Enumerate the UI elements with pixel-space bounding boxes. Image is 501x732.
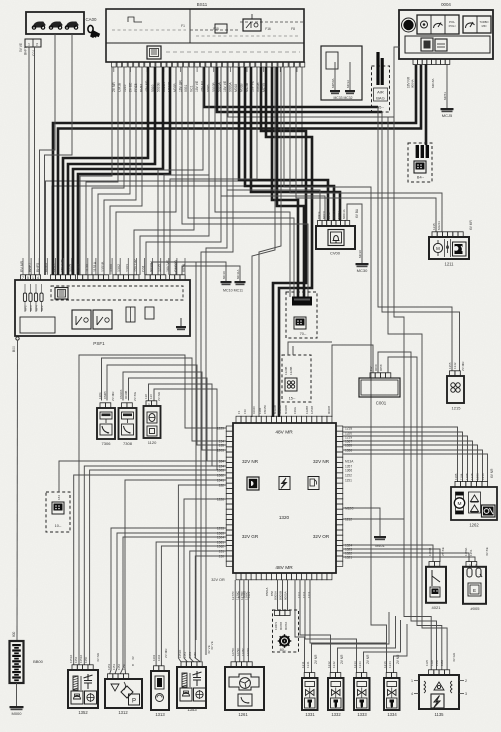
buzzer CV00 box [316,226,355,249]
wire BS11 pin to PSF1 cascade 4 [98,67,130,275]
wire airbag down A2 to 1215 [382,112,460,371]
svg-text:MC51: MC51 [443,92,447,100]
svg-text:4: 4 [411,692,413,696]
svg-text:1350: 1350 [84,656,88,663]
svg-text:9060: 9060 [374,364,378,371]
wire BS11 B3 join [228,67,394,117]
airbag label 65 [377,106,384,110]
1262 pin row [455,481,487,487]
label 1262 [469,523,479,528]
svg-text:B00: B00 [12,346,16,352]
svg-text:1380C: 1380C [245,590,249,600]
wire CA00 down 4 [45,34,73,275]
svg-text:70--: 70-- [300,332,307,336]
svg-text:184: 184 [57,495,61,500]
svg-text:15V NR: 15V NR [61,259,65,272]
svg-text:MIN: MIN [482,24,487,28]
svg-text:2V NR: 2V NR [340,654,344,664]
svg-text:3V BE: 3V BE [485,547,489,556]
svg-text:F1: F1 [237,410,241,414]
airbag dashed box 65-- [372,66,390,112]
fan unit 1262 box [451,487,497,520]
wire MC10 [176,262,226,281]
wire 1120 pin1 to 1320 pin 124 [149,384,227,466]
wire MC11 [182,266,240,281]
wire 7308 pin1 to 1320 pin 1203 [123,372,226,450]
svg-text:1135: 1135 [434,712,444,717]
svg-text:MC30: MC30 [358,250,362,258]
svg-text:M103B: M103B [278,405,282,414]
svg-text:1: 1 [411,679,413,683]
CV00 pin row [318,221,350,226]
wire 0004 corner line A4 [394,47,431,670]
svg-text:6V NR: 6V NR [490,468,494,478]
cluster gauge box B [463,16,491,33]
svg-text:1213: 1213 [353,661,357,668]
svg-text:2V MR: 2V MR [164,648,168,658]
svg-text:1334: 1334 [387,712,397,717]
10-- icon [52,502,64,514]
svg-text:1351D: 1351D [178,650,182,658]
label 0004 [441,2,451,7]
wire C001 to 1320 [332,345,373,417]
svg-text:1320B: 1320B [284,367,288,375]
long wire right to PSF1 B [164,67,209,275]
svg-text:1328B: 1328B [289,367,293,375]
wire 1320 pin 1293 to 1312 [110,528,226,674]
dashed box 84-- [408,143,432,182]
wire BS11 to 1211 h2 [296,67,436,232]
svg-text:3: 3 [465,692,467,696]
svg-text:1331: 1331 [305,712,315,717]
svg-text:5V VE: 5V VE [19,43,23,52]
PSF1 pin risers [23,258,185,275]
wire 1320 to 4021 a [343,545,433,562]
svg-text:0004: 0004 [441,2,451,7]
wire to 1320 top b [259,67,281,417]
injector 1334 [383,654,400,717]
BS11 pin stubs [114,67,297,72]
switch 8005 [463,562,486,604]
wire BS11 down mid X2 [206,67,227,655]
wire 1320 pin 1303 to 1352 [90,470,226,665]
svg-text:7308: 7308 [123,441,133,446]
svg-text:138: 138 [144,394,148,399]
label CA00 [86,17,98,22]
svg-text:1351A: 1351A [69,655,73,663]
wire BS11 to 1211 h1 [290,67,442,232]
svg-text:1203: 1203 [217,448,224,452]
1320 bottom labels [237,587,311,598]
label 1313 [155,712,165,717]
wire 10-- to 1320 pin 184 [59,461,226,492]
dashed box 60-- [273,610,299,652]
svg-text:1320: 1320 [279,515,290,520]
svg-text:1332: 1332 [331,712,341,717]
1135 bolt box [431,694,444,708]
svg-text:32V OR: 32V OR [313,534,330,539]
cluster lower strip [405,36,490,53]
1312 wire labels [107,655,135,670]
PSF1 inner box [20,317,55,333]
svg-text:1261: 1261 [238,712,248,717]
svg-text:1150: 1150 [122,664,126,670]
ground MC10 [221,281,232,285]
svg-text:1152: 1152 [440,660,444,666]
svg-text:9004A: 9004A [410,79,414,88]
wire BS11 to CV00 thin 2 [221,67,325,221]
PSF1 fuses MF [23,284,43,312]
svg-text:CM150: CM150 [263,405,267,414]
wire 1320 to 1332 [300,580,331,673]
CV00 wire labels [317,209,346,219]
svg-text:1312: 1312 [118,710,128,715]
svg-text:4: 4 [37,276,39,280]
svg-text:M13A: M13A [345,459,354,463]
svg-text:CV00: CV00 [330,251,341,256]
BS11 lower dashed strip [112,30,300,52]
wire PSF1 to battery [16,340,19,641]
injector 1332 [327,654,344,717]
1320 text 32V OR [313,534,330,539]
wire 15-- feeds [288,342,332,355]
svg-text:B581A: B581A [265,587,269,596]
svg-text:C01: C01 [32,50,36,56]
cluster warning lamp [402,18,416,32]
1262 diodes [469,492,481,513]
wire BS11 to 70 thin 3 [182,67,308,297]
svg-text:1380S: 1380S [274,622,278,630]
injector 1331 [301,654,318,717]
thick wire BS11 via 70 corner to 1320 b [266,67,312,417]
svg-text:1211: 1211 [444,262,454,267]
svg-text:1229: 1229 [217,426,224,430]
label PSF1 [93,341,105,346]
svg-text:80--: 80-- [280,648,287,652]
1211 fuel icon [453,242,467,256]
lamp unit 1120 [144,401,161,445]
1135 side pins [411,679,467,696]
svg-text:1136: 1136 [430,660,434,666]
svg-text:XC1: XC1 [190,85,194,92]
connector block CA00 [26,12,84,34]
svg-text:1352: 1352 [74,656,78,663]
airbag terminal 1 [376,52,379,85]
60-- inner labels [274,622,288,630]
svg-text:9058: 9058 [379,364,383,371]
svg-text:1341: 1341 [306,661,310,668]
svg-text:4V GR: 4V GR [452,652,456,662]
svg-text:1152: 1152 [345,473,352,477]
60-- pin cells [275,611,291,616]
svg-text:32V OR: 32V OR [211,578,225,582]
inner relay cell [326,52,338,69]
wire 1320 to 60-- a [277,580,279,610]
label MC51 [443,92,447,100]
svg-text:1279C: 1279C [236,648,240,656]
svg-text:1342: 1342 [332,661,336,668]
1261 inner [229,674,259,706]
gauge icon speedo [434,23,443,29]
svg-text:MF4: MF4 [35,305,39,311]
thick wire BS11 to CV00 c [251,67,340,221]
wire BS11 pin to PSF1 cascade 7 [116,67,176,275]
1262 icon [482,505,496,517]
1320 text 48V MR bottom [275,565,293,571]
label 5V VE [19,43,28,55]
svg-text:184: 184 [219,459,225,463]
wire 1320 bottom to 1261 c [243,580,245,662]
svg-text:15--: 15-- [289,397,296,401]
label 10-- [55,524,62,528]
svg-text:1212: 1212 [327,661,331,668]
thick wire BS11 to PSF1 D [68,67,155,275]
label 1215 [452,406,462,411]
labels B005A [274,591,288,600]
label 6V MR [469,220,473,230]
relay 1215 [447,371,464,403]
svg-text:18V VE: 18V VE [195,80,199,92]
wire 1320 to 1262 pin 1 [343,427,458,482]
wire CA00 down 1 [28,47,30,275]
svg-text:BB00: BB00 [33,659,44,664]
wire BS11 pin to PSF1 cascade 9 [140,67,209,275]
svg-text:M0C0: M0C0 [322,211,326,219]
long wire right to PSF1 A [158,67,203,275]
svg-text:2V NR: 2V NR [112,82,116,92]
label 84-- [417,176,425,180]
1211 labels above [432,221,441,230]
svg-text:2V NR: 2V NR [396,654,400,664]
svg-text:M0C4: M0C4 [332,211,336,219]
1320 icon bolt [279,477,290,490]
svg-text:1: 1 [32,276,34,280]
svg-text:BS11: BS11 [197,2,208,7]
ground M401 [374,536,386,548]
wire 1320 to 8005 b [343,557,475,562]
svg-text:BHF7: BHF7 [24,47,28,55]
svg-text:5: 5 [27,276,29,280]
svg-text:BHF2: BHF2 [52,263,56,272]
svg-text:1151: 1151 [183,652,187,658]
labels 1277C [231,590,249,600]
1353 wire labels [178,645,211,658]
BS11 notch [128,14,260,22]
BS11 wire labels [112,80,266,92]
1215 fan icon [451,383,460,392]
svg-text:1215: 1215 [470,473,474,480]
svg-text:1353: 1353 [187,707,197,712]
wire BS11 pin to PSF1 cascade 2 [86,67,118,275]
connector C001 [359,378,400,397]
svg-text:AIR: AIR [377,90,384,95]
wire 7306 pin2 to 1320 pin 135 [107,365,226,445]
PSF1 pin group C2 [113,275,139,280]
svg-text:M132B: M132B [273,405,277,414]
ground MC33 [330,90,340,94]
wire 1320 pin 124 to 1352 [84,466,226,665]
blower 1261 box [225,662,264,710]
fuse label F8 [291,27,295,31]
wire 1320 to 1262 pin 4 [343,441,473,482]
PSF1 relay 1 [72,310,91,329]
svg-text:2V NR: 2V NR [157,391,161,401]
1211 divider [445,239,451,257]
labels above 7306 [98,391,115,401]
BS11 inner divider [106,9,304,43]
svg-text:1211: 1211 [301,661,305,668]
ground MCJ5 [441,108,454,118]
1313 icons [155,676,164,702]
svg-text:CM05: CM05 [103,391,107,399]
svg-text:32V GR: 32V GR [242,534,259,539]
1320 left pin col [226,426,233,566]
switch 4021 [426,562,446,603]
wire 0004 pin3 to 84-- (thick) [425,65,428,146]
label 60-- [280,648,287,652]
svg-text:1353A: 1353A [79,655,83,663]
svg-text:10--: 10-- [55,524,62,528]
svg-text:18V VE: 18V VE [223,80,227,92]
svg-text:1254B: 1254B [310,406,314,414]
fuse label F1 [181,24,185,28]
PSF1 pin group A [21,275,41,280]
wire BS11 to airbag B2 (thick) [217,67,382,112]
svg-text:1376C: 1376C [246,648,250,656]
svg-text:MC33 MC32: MC33 MC32 [333,96,352,100]
svg-text:4V VE: 4V VE [210,641,214,650]
svg-text:MCJ5: MCJ5 [442,113,453,118]
1320 icon immo [247,477,259,490]
PSF1 relay 2 [93,310,112,329]
key icon [88,25,100,37]
svg-text:1351: 1351 [107,663,111,670]
cluster lower icons [421,38,447,51]
svg-text:2V BE: 2V BE [129,82,133,92]
1320 left pin labels [217,426,224,558]
svg-text:B005B: B005B [279,591,283,600]
svg-text:1150: 1150 [193,652,197,658]
C001 pin row [370,373,391,378]
wire BS11 pin to PSF1 cascade 8 [134,67,194,275]
fuel pump unit 1211 box [429,237,469,259]
svg-text:B4--: B4-- [417,176,425,180]
wire 1331 up [312,612,390,673]
svg-text:#005: #005 [471,606,481,611]
svg-text:135: 135 [219,443,225,447]
wire 1320 pin 131 to 1353 [190,551,226,662]
svg-text:BHF4: BHF4 [44,263,48,272]
wire 1334 up [394,624,408,673]
wire 1320 to 60-- b [282,580,284,610]
svg-text:MC30: MC30 [357,268,368,273]
wire BS11 to 70 thin 1 [215,67,290,297]
svg-text:1278C: 1278C [240,590,244,600]
lighter 1313 box [151,666,169,710]
relay box right of BS11 [321,46,362,100]
thick wire BS11 to PSF1 F [78,67,170,275]
thick wire pair top (right to PSF1) B [58,65,421,275]
1211 sensor icon [446,241,449,253]
wire CA00 down 3 [40,34,56,275]
svg-text:BAG: BAG [376,96,384,101]
1320 icon pump [308,477,319,490]
svg-text:1150: 1150 [435,660,439,666]
ignition coil 1353 [177,662,206,712]
1312 icons [111,682,140,705]
svg-text:9030B: 9030B [124,391,128,399]
wire BS11 pin to PSF1 cascade 10 [146,67,221,275]
wire 1320 to 4021 b [343,549,440,562]
1352 wire labels [69,652,100,663]
svg-text:1384: 1384 [258,407,262,414]
CA00 contact icon 2 [49,22,62,29]
wire 1333 up [364,620,401,673]
svg-text:2V MR: 2V MR [461,361,465,371]
svg-text:1218: 1218 [481,473,485,480]
svg-text:9031: 9031 [184,84,188,92]
wire 1320 to 1333 [305,580,357,673]
svg-text:1203: 1203 [476,473,480,480]
wire airbag down A1 to 1215 [378,107,452,371]
label 48V MR above [0,0,1,1]
svg-text:6V BA: 6V BA [355,208,359,218]
ground MC11 [235,281,246,285]
wire BS11 pin to PSF1 cascade 5 [104,67,136,275]
1262 labels [454,473,485,480]
svg-text:B0CE: B0CE [317,211,321,219]
wire right margin R1 [284,67,387,670]
svg-text:1135: 1135 [425,660,429,666]
BS11 dashed partition [190,22,304,30]
label 6V NR r [490,468,494,478]
wire 7308 pin2 to 1320 pin 184 [129,378,227,461]
wire 1320 to 1262 pin 5 [343,445,478,482]
wire PSF1 pin down mid X3 [152,262,196,640]
70-- connector bar [292,297,312,306]
svg-text:POLI: POLI [449,24,456,28]
4021 inner [430,570,440,597]
svg-text:TURBO: TURBO [479,20,488,24]
svg-text:2V NR: 2V NR [366,654,370,664]
wire 1320 bottom to 1261 d [247,580,249,662]
svg-text:1151: 1151 [345,478,352,482]
wire 1320 pin 1362 to 1313 [161,546,226,666]
1261 wire labels [210,641,250,656]
wire 1320 to 1262 pin 3 [343,436,468,482]
label 1261 [238,712,248,717]
wire 1320 pin 1363 to 1312 [115,533,226,674]
svg-text:9060B: 9060B [327,406,331,414]
C001 labels [369,364,383,371]
label M050A [331,78,350,88]
8005 inner [467,568,482,596]
svg-text:32V NR: 32V NR [242,459,259,464]
wire 1229 to 1352 [79,355,226,665]
1320 right pin labels [345,426,354,559]
svg-text:B005A: B005A [274,591,278,600]
15-- icon [285,378,297,391]
instrument cluster 0004 outline [399,10,493,59]
svg-text:5010B: 5010B [156,82,160,92]
long wire right to PSF1 C [170,67,257,275]
cluster gauge box A [417,15,459,34]
label CV00 [330,251,341,256]
svg-text:1278C: 1278C [241,648,245,656]
wire 1320 pin 1304 to 1312 [120,537,226,674]
svg-text:1380A: 1380A [464,548,468,556]
label 6V BA [355,208,359,218]
